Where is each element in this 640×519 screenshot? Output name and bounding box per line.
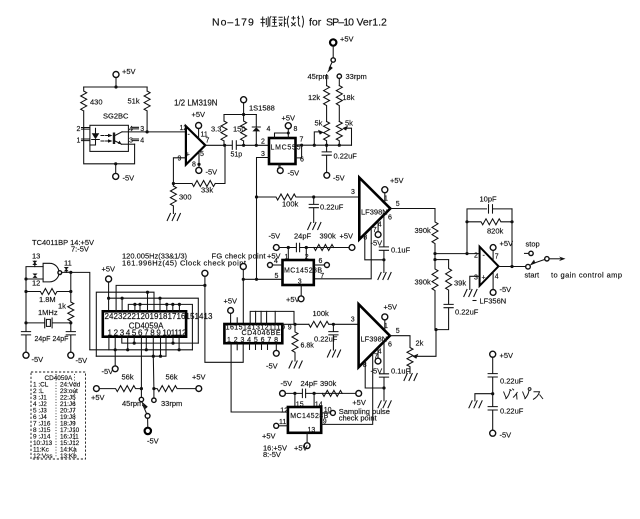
+5V terminal (speed switch top) — [330, 39, 336, 45]
svg-text:-5V: -5V — [32, 355, 44, 364]
resistor 390k (lower half of divider) — [432, 254, 438, 330]
stub pin4 — [127, 337, 129, 350]
wire rail A (pin23 out) — [116, 285, 205, 311]
svg-text:12: 12 — [280, 407, 288, 414]
node crystal right — [69, 321, 72, 324]
node top rail junction — [114, 85, 117, 88]
node pin15 — [293, 392, 296, 395]
wire tap to 39k — [435, 259, 449, 261]
pll U8 CD4046BE body — [224, 324, 282, 343]
-5V terminal (optocoupler bottom) — [113, 173, 119, 179]
resistor 430 — [81, 87, 87, 128]
stub pin2 to -5V — [114, 337, 116, 366]
svg-text:51k: 51k — [128, 97, 140, 106]
svg-text:13:Kb: 13:Kb — [60, 453, 77, 460]
pin 12 label and mark — [33, 274, 38, 278]
capacitor 0.22uF (filter) — [309, 197, 318, 223]
svg-text:SP–10: SP–10 — [326, 17, 354, 29]
wire left rail down — [25, 279, 27, 331]
wiper (45 side) — [314, 132, 319, 145]
node pin2 — [305, 246, 308, 249]
node 134.9,304.4 — [133, 303, 136, 306]
svg-text:start: start — [525, 271, 541, 280]
node pin9/bus/6.8k — [293, 323, 296, 326]
stub pin16 — [159, 298, 161, 311]
capacitor 24pF (MC2) — [302, 389, 305, 397]
capacitor 51p — [232, 141, 236, 150]
svg-text:11: 11 — [279, 419, 286, 426]
pin 1 (LED cathode) — [82, 139, 90, 141]
svg-text:7: 7 — [320, 273, 324, 280]
node pin14 — [313, 392, 316, 395]
svg-text:8: 8 — [363, 362, 367, 369]
label bypass (katakana) — [504, 388, 544, 400]
node pot 33 bottom — [338, 144, 341, 147]
speed select contacts — [141, 389, 154, 398]
speed switch SW1 pivot — [332, 46, 334, 58]
label LF356N — [473, 300, 476, 302]
-5V terminal (CD4046 Vss) — [273, 350, 279, 356]
title text "No-179 (seigyobu kai) for SP-10 Ver1.2" — [212, 17, 387, 29]
svg-text:+: + — [482, 274, 486, 281]
wire rail 2 (clock rail from oscillator) — [90, 349, 193, 351]
pin 8 wire (logic ref) — [365, 361, 384, 388]
node diode bottom — [255, 144, 258, 147]
svg-text:-5V: -5V — [281, 379, 293, 388]
-5V terminal (LM319 pin 8) — [198, 164, 200, 167]
wire collector output to comparator — [122, 131, 186, 133]
svg-text:45rpm: 45rpm — [122, 399, 143, 408]
svg-text:390k: 390k — [415, 278, 432, 287]
feedback right vertical — [511, 209, 513, 267]
svg-text:6: 6 — [300, 157, 304, 164]
resistor 51k — [144, 87, 150, 132]
node summing line — [433, 252, 436, 255]
svg-text:430: 430 — [90, 98, 103, 107]
node 153.3,356.2 — [152, 355, 155, 358]
node 45 branch — [140, 387, 143, 390]
wire pin bus (pins 13-10 to VCO in) — [250, 311, 294, 324]
wire pin8 down to 56k junction — [152, 337, 155, 389]
svg-text:3: 3 — [129, 138, 133, 145]
svg-text:-5V: -5V — [76, 356, 88, 365]
pin 9 wire to LF398-2 pin7 — [321, 353, 373, 424]
svg-text:0.1uF: 0.1uF — [391, 367, 411, 376]
svg-text:10pF: 10pF — [480, 195, 498, 204]
resistor 820k — [467, 219, 512, 225]
node 179.4,304.4 — [178, 303, 181, 306]
svg-text:MC14528B: MC14528B — [284, 268, 322, 275]
stub pin5 — [133, 337, 135, 343]
-5V terminal (LF398-2 pin4) — [375, 358, 381, 364]
svg-text:24pF: 24pF — [294, 232, 312, 241]
svg-text:+5V: +5V — [340, 232, 354, 241]
svg-text:5k: 5k — [345, 119, 353, 128]
svg-text:12:Vss: 12:Vss — [33, 453, 53, 460]
capacitor 10pF — [489, 205, 513, 213]
svg-text:24pF: 24pF — [53, 336, 69, 343]
wire to cap — [492, 357, 494, 373]
switch arm to 45rpm — [329, 62, 332, 68]
resistor 12k — [324, 86, 330, 122]
node pin6/pin7 tie — [300, 144, 303, 147]
optocoupler SG2BC body — [90, 125, 128, 151]
svg-text:+5V: +5V — [352, 398, 366, 407]
resistor 56k (45 side) — [99, 386, 141, 392]
speed select switch arm — [143, 406, 146, 414]
svg-text:+5V: +5V — [91, 393, 105, 402]
svg-text:3.3: 3.3 — [211, 125, 221, 134]
pin 3 wire (output down to 100k line) — [257, 158, 270, 198]
svg-text:2: 2 — [474, 253, 478, 260]
node 512,221.8 — [510, 220, 513, 223]
svg-text:-5V: -5V — [288, 169, 300, 178]
svg-text:1S1588: 1S1588 — [249, 104, 275, 113]
node 122.1,298.2 — [121, 297, 124, 300]
svg-text:-5V: -5V — [371, 239, 383, 248]
start/stop switch pivot — [526, 264, 531, 269]
svg-text:+5V: +5V — [500, 239, 514, 248]
svg-text:0.1uF: 0.1uF — [391, 246, 411, 255]
-5V terminal (right 24pF) — [68, 352, 74, 358]
ground (bypass) — [469, 401, 482, 408]
node 204.9,285.4 — [203, 284, 206, 287]
phototransistor inside opto — [113, 133, 115, 145]
node 160.5,356.2 — [159, 355, 162, 358]
svg-text:-5V: -5V — [206, 168, 218, 177]
pins 4-7 stubs — [250, 343, 268, 349]
node bypass center — [491, 392, 494, 395]
svg-text:1.8M: 1.8M — [39, 295, 56, 304]
svg-text:390k: 390k — [320, 379, 337, 388]
switch arm (to start) — [533, 259, 545, 263]
resistor 390k (MC1 timing) — [314, 245, 334, 251]
svg-text:3: 3 — [261, 151, 265, 158]
node 173,343.1 — [171, 342, 174, 345]
+5V terminal (56k left) — [94, 386, 100, 392]
svg-text:stop: stop — [526, 240, 540, 249]
svg-text:6: 6 — [388, 215, 392, 222]
node hold cap / ground — [382, 258, 385, 261]
wire +5V down to rail — [243, 103, 245, 115]
capacitor 0.22uF (bypass +) — [488, 374, 497, 407]
node 256.5,279.3 — [255, 278, 258, 281]
+5V terminal (bypass) — [490, 351, 496, 357]
svg-text:2k: 2k — [416, 339, 424, 348]
svg-text:+5V: +5V — [286, 295, 300, 304]
svg-text:to gain control amp: to gain control amp — [551, 271, 622, 280]
pin 7 wire to pots rail — [296, 144, 352, 146]
one-shot U9 MC14528B body — [283, 260, 314, 285]
svg-text:+5V: +5V — [224, 296, 238, 305]
node comparator output — [223, 144, 226, 147]
svg-text:820k: 820k — [487, 227, 504, 236]
resistor 100k (loop filter) — [257, 194, 314, 200]
+5V terminal (MC1 timing) — [349, 245, 355, 251]
33rpm contact — [337, 74, 341, 78]
svg-text:SG2BC: SG2BC — [103, 112, 129, 121]
node wiper bar 45 — [313, 144, 316, 147]
pin 4 stub — [377, 348, 379, 358]
wire switch common to -5V — [147, 418, 149, 427]
wire -5V stub — [115, 164, 117, 174]
svg-text:-5V: -5V — [333, 174, 345, 183]
svg-text:5: 5 — [275, 273, 279, 280]
ground (below 300) — [167, 214, 180, 221]
svg-text:Ver1.2: Ver1.2 — [357, 17, 388, 29]
resistor 33k (feedback) — [173, 145, 225, 186]
svg-text:-5V: -5V — [500, 285, 512, 294]
svg-text:1k: 1k — [58, 302, 66, 311]
node 172.8,304.4 — [171, 303, 174, 306]
svg-text:7: 7 — [495, 254, 499, 261]
title kanji (drawn strokes) — [261, 16, 304, 28]
resistor 3.3k — [221, 115, 227, 146]
svg-text:7: 7 — [300, 137, 304, 144]
LED inside opto — [95, 128, 97, 133]
stub pin22 — [121, 298, 123, 311]
svg-text:0.22uF: 0.22uF — [500, 377, 524, 386]
svg-text:11: 11 — [64, 259, 72, 268]
svg-text:24pF: 24pF — [301, 379, 319, 388]
svg-text:+5V: +5V — [500, 351, 514, 360]
pin 6 wire (hold cap) — [383, 342, 385, 374]
svg-text:1: 1 — [384, 323, 388, 330]
svg-text:7: 7 — [374, 353, 378, 360]
svg-text:150: 150 — [233, 125, 246, 134]
resistor 300 (to ground) — [170, 184, 176, 214]
node hold cap 2 — [382, 386, 385, 389]
capacitor 24pF (left) — [21, 332, 30, 353]
capacitor 0.1uF (hold 2) — [379, 374, 388, 388]
capacitor 24pF (MC1) — [296, 243, 299, 251]
svg-text:5k: 5k — [315, 119, 323, 128]
wire output to 51p — [225, 144, 232, 146]
svg-text:4: 4 — [140, 138, 144, 145]
pin 9 wire (feedback input) — [173, 158, 186, 184]
svg-text:3: 3 — [351, 317, 355, 324]
svg-text:3: 3 — [298, 278, 302, 285]
wire to ground — [475, 394, 493, 401]
wire rail B — [96, 292, 154, 356]
svg-text:LF356N: LF356N — [480, 297, 507, 306]
svg-text:5: 5 — [200, 151, 204, 158]
wire 51p to pin2 — [237, 144, 269, 146]
wire pins 4,8 supply — [275, 129, 289, 138]
stubs pins 15,14 — [295, 393, 314, 407]
wire FG line to pin14 and rail to MC14528 — [243, 279, 282, 324]
svg-text:33rpm: 33rpm — [161, 399, 182, 408]
wire pin 9 output line — [282, 323, 309, 325]
node input rail — [24, 277, 27, 280]
svg-text:13: 13 — [308, 427, 316, 434]
capacitor 0.22uF (bypass -) — [488, 407, 497, 431]
resistor 390k (upper, from SH1 output) — [432, 209, 438, 254]
wire rail C — [109, 298, 199, 343]
wire pin24 Vdd — [108, 282, 110, 311]
stubs pins 20,19,15,14,13 — [135, 304, 180, 311]
node pin1 — [287, 246, 290, 249]
-5V terminal (MC14528-2 timing) — [280, 391, 286, 397]
svg-text:300: 300 — [179, 193, 192, 202]
ground (SH2 input cap) — [327, 350, 340, 357]
resistor 390k (MC2 timing) — [322, 390, 342, 396]
one-shot U10 MC14528B body — [288, 407, 321, 433]
wire 555 pin3 down to FG rail — [256, 197, 258, 279]
wire emitter to bottom rail — [122, 143, 135, 145]
node 467,221.8 — [465, 220, 468, 223]
svg-text:0.22uF: 0.22uF — [334, 152, 358, 161]
wire timing line — [279, 247, 349, 249]
wire rail 1 (below) — [122, 337, 199, 343]
svg-text:2: 2 — [261, 139, 265, 146]
svg-text:+5V: +5V — [384, 302, 398, 311]
wire timing line 2 — [285, 392, 355, 394]
op-amp U5 LF356N — [480, 247, 499, 286]
svg-text:390k: 390k — [415, 226, 432, 235]
pin1 wire to MC14528-2 pin12 — [231, 343, 288, 412]
node 33 branch — [152, 387, 155, 390]
svg-text:4: 4 — [495, 274, 499, 281]
svg-text:-5V: -5V — [123, 174, 135, 183]
svg-text:5: 5 — [396, 328, 400, 335]
svg-text:LF398N: LF398N — [361, 335, 388, 344]
resistor 39k (lead-lag) — [446, 260, 452, 304]
svg-text:10: 10 — [324, 407, 332, 414]
wire down to 2k wiper — [416, 330, 436, 357]
+5V terminal (LF356 pin7) — [490, 245, 496, 251]
svg-text:1 2 3 4 5 6 7 8 9 101112: 1 2 3 4 5 6 7 8 9 101112 — [108, 329, 188, 338]
svg-text:7: 7 — [206, 138, 210, 145]
-5V terminal (bypass) — [490, 430, 496, 436]
pin 7 wire (sample logic to MC14528) — [314, 228, 372, 279]
wire rail 3.3k/150/diode — [224, 114, 256, 116]
svg-text:1 2 3 4 5 6 7 8: 1 2 3 4 5 6 7 8 — [227, 337, 278, 344]
trimmer 2k wiper arrow — [412, 354, 418, 359]
node 100k / 0.22uF — [332, 323, 335, 326]
svg-text:3: 3 — [351, 189, 355, 196]
svg-text:-5V: -5V — [266, 362, 278, 371]
wire +5V to top rail — [115, 78, 117, 88]
svg-text:12k: 12k — [308, 93, 320, 102]
capacitor 24pF (right) — [66, 323, 75, 352]
stub pin9 — [160, 337, 162, 357]
+5V terminal (56k right) — [196, 386, 202, 392]
svg-text:9: 9 — [178, 156, 182, 163]
svg-text:8: 8 — [192, 162, 196, 169]
svg-text:1/2 LM319N: 1/2 LM319N — [174, 99, 218, 108]
gate U6 TC4011 NAND — [43, 263, 59, 282]
resistor 100k (to SH2 input) — [309, 321, 359, 327]
stubs pins 1,2 — [288, 248, 306, 261]
svg-text:6: 6 — [388, 342, 392, 349]
svg-text:56k: 56k — [166, 373, 178, 382]
svg-text:242322212019181716151413: 242322212019181716151413 — [105, 312, 214, 321]
svg-text:24pF: 24pF — [35, 336, 51, 343]
svg-text:0.22uF: 0.22uF — [320, 203, 344, 212]
capacitor 0.22uF (SH2 input) — [329, 324, 338, 350]
svg-text:4: 4 — [378, 222, 382, 229]
svg-text:5: 5 — [396, 201, 400, 208]
wire arrow to gain control amp — [549, 258, 562, 260]
pin 4/3 (collector, top right) — [133, 127, 139, 129]
wire pin 1 — [384, 193, 386, 203]
stub pin7 — [145, 337, 147, 350]
-5V terminal (MC14528-1 timing) — [273, 245, 279, 251]
svg-text:FG check point: FG check point — [212, 252, 267, 261]
svg-text:12: 12 — [32, 278, 40, 287]
resistor 1.8M — [26, 289, 71, 295]
-5V terminal (CD4059 pin2) — [112, 366, 118, 372]
wire output — [205, 144, 224, 146]
wire 45 branch — [326, 75, 328, 86]
resistor 1k — [68, 292, 74, 323]
svg-text:7: 7 — [373, 227, 377, 234]
svg-text:18k: 18k — [342, 93, 354, 102]
pin 4 stub — [377, 221, 379, 232]
node 166.8,304.4 — [165, 303, 168, 306]
svg-text:7:-5V: 7:-5V — [71, 244, 89, 253]
pin15 stub — [236, 318, 238, 324]
feedback network left vertical — [467, 209, 487, 254]
svg-text:-5V: -5V — [500, 431, 512, 440]
CD4059A pin table (dashed box) — [31, 372, 86, 459]
node 39k branch tap — [433, 258, 436, 261]
svg-text:51p: 51p — [231, 152, 243, 159]
wire to LF398 No1 pin3 — [314, 196, 360, 198]
ground (6.8k) — [289, 361, 302, 368]
pin 6 terminal — [314, 264, 325, 266]
pin8 stub to -5V — [275, 343, 277, 350]
svg-text:1: 1 — [77, 138, 81, 145]
ground (LF398-1) — [378, 273, 391, 280]
node 100k / 0.22uF — [312, 195, 315, 198]
node 150 bottom — [242, 144, 245, 147]
-5V terminal (LF398-1 pin4) — [375, 232, 381, 238]
pin 10 terminal (sampling pulse check point) — [321, 412, 330, 414]
node clock check point — [202, 270, 208, 276]
pin 5 / 8 stub — [198, 151, 200, 165]
node 115.2,349.8 — [114, 348, 117, 351]
stub pin11 — [172, 337, 174, 343]
-5V terminal (speed switch) — [145, 428, 151, 434]
svg-text:+5V: +5V — [390, 176, 404, 185]
stub pin12 — [178, 337, 180, 350]
wire 33 branch — [338, 78, 340, 85]
node 146.3,349.8 — [145, 348, 148, 351]
ground (2k bottom) — [404, 374, 417, 381]
svg-text:8: 8 — [363, 235, 367, 242]
divider U7 CD4059A body — [103, 311, 186, 336]
stub pin1 — [108, 337, 110, 350]
svg-text:6: 6 — [319, 258, 323, 265]
ground (LF356 pin3) — [464, 290, 477, 297]
svg-text:4: 4 — [267, 126, 271, 133]
node 147.5,292.2 — [146, 291, 149, 294]
svg-text:+5V: +5V — [282, 114, 296, 123]
node FG check point — [240, 264, 246, 270]
pin 6 wire (tied to pin 7) — [296, 145, 302, 158]
node pin8 — [197, 163, 200, 166]
pin 6 wire (hold cap) — [383, 215, 385, 247]
node 100k line left (555 pin3 junction) — [255, 195, 258, 198]
svg-text:56k: 56k — [122, 373, 134, 382]
node 108.6,298.2 — [107, 297, 110, 300]
node 127.7,349.8 — [126, 348, 129, 351]
node feedback corner — [172, 182, 175, 185]
wire pin6 down to 56k junction — [140, 337, 142, 389]
svg-text:2: 2 — [77, 126, 81, 133]
